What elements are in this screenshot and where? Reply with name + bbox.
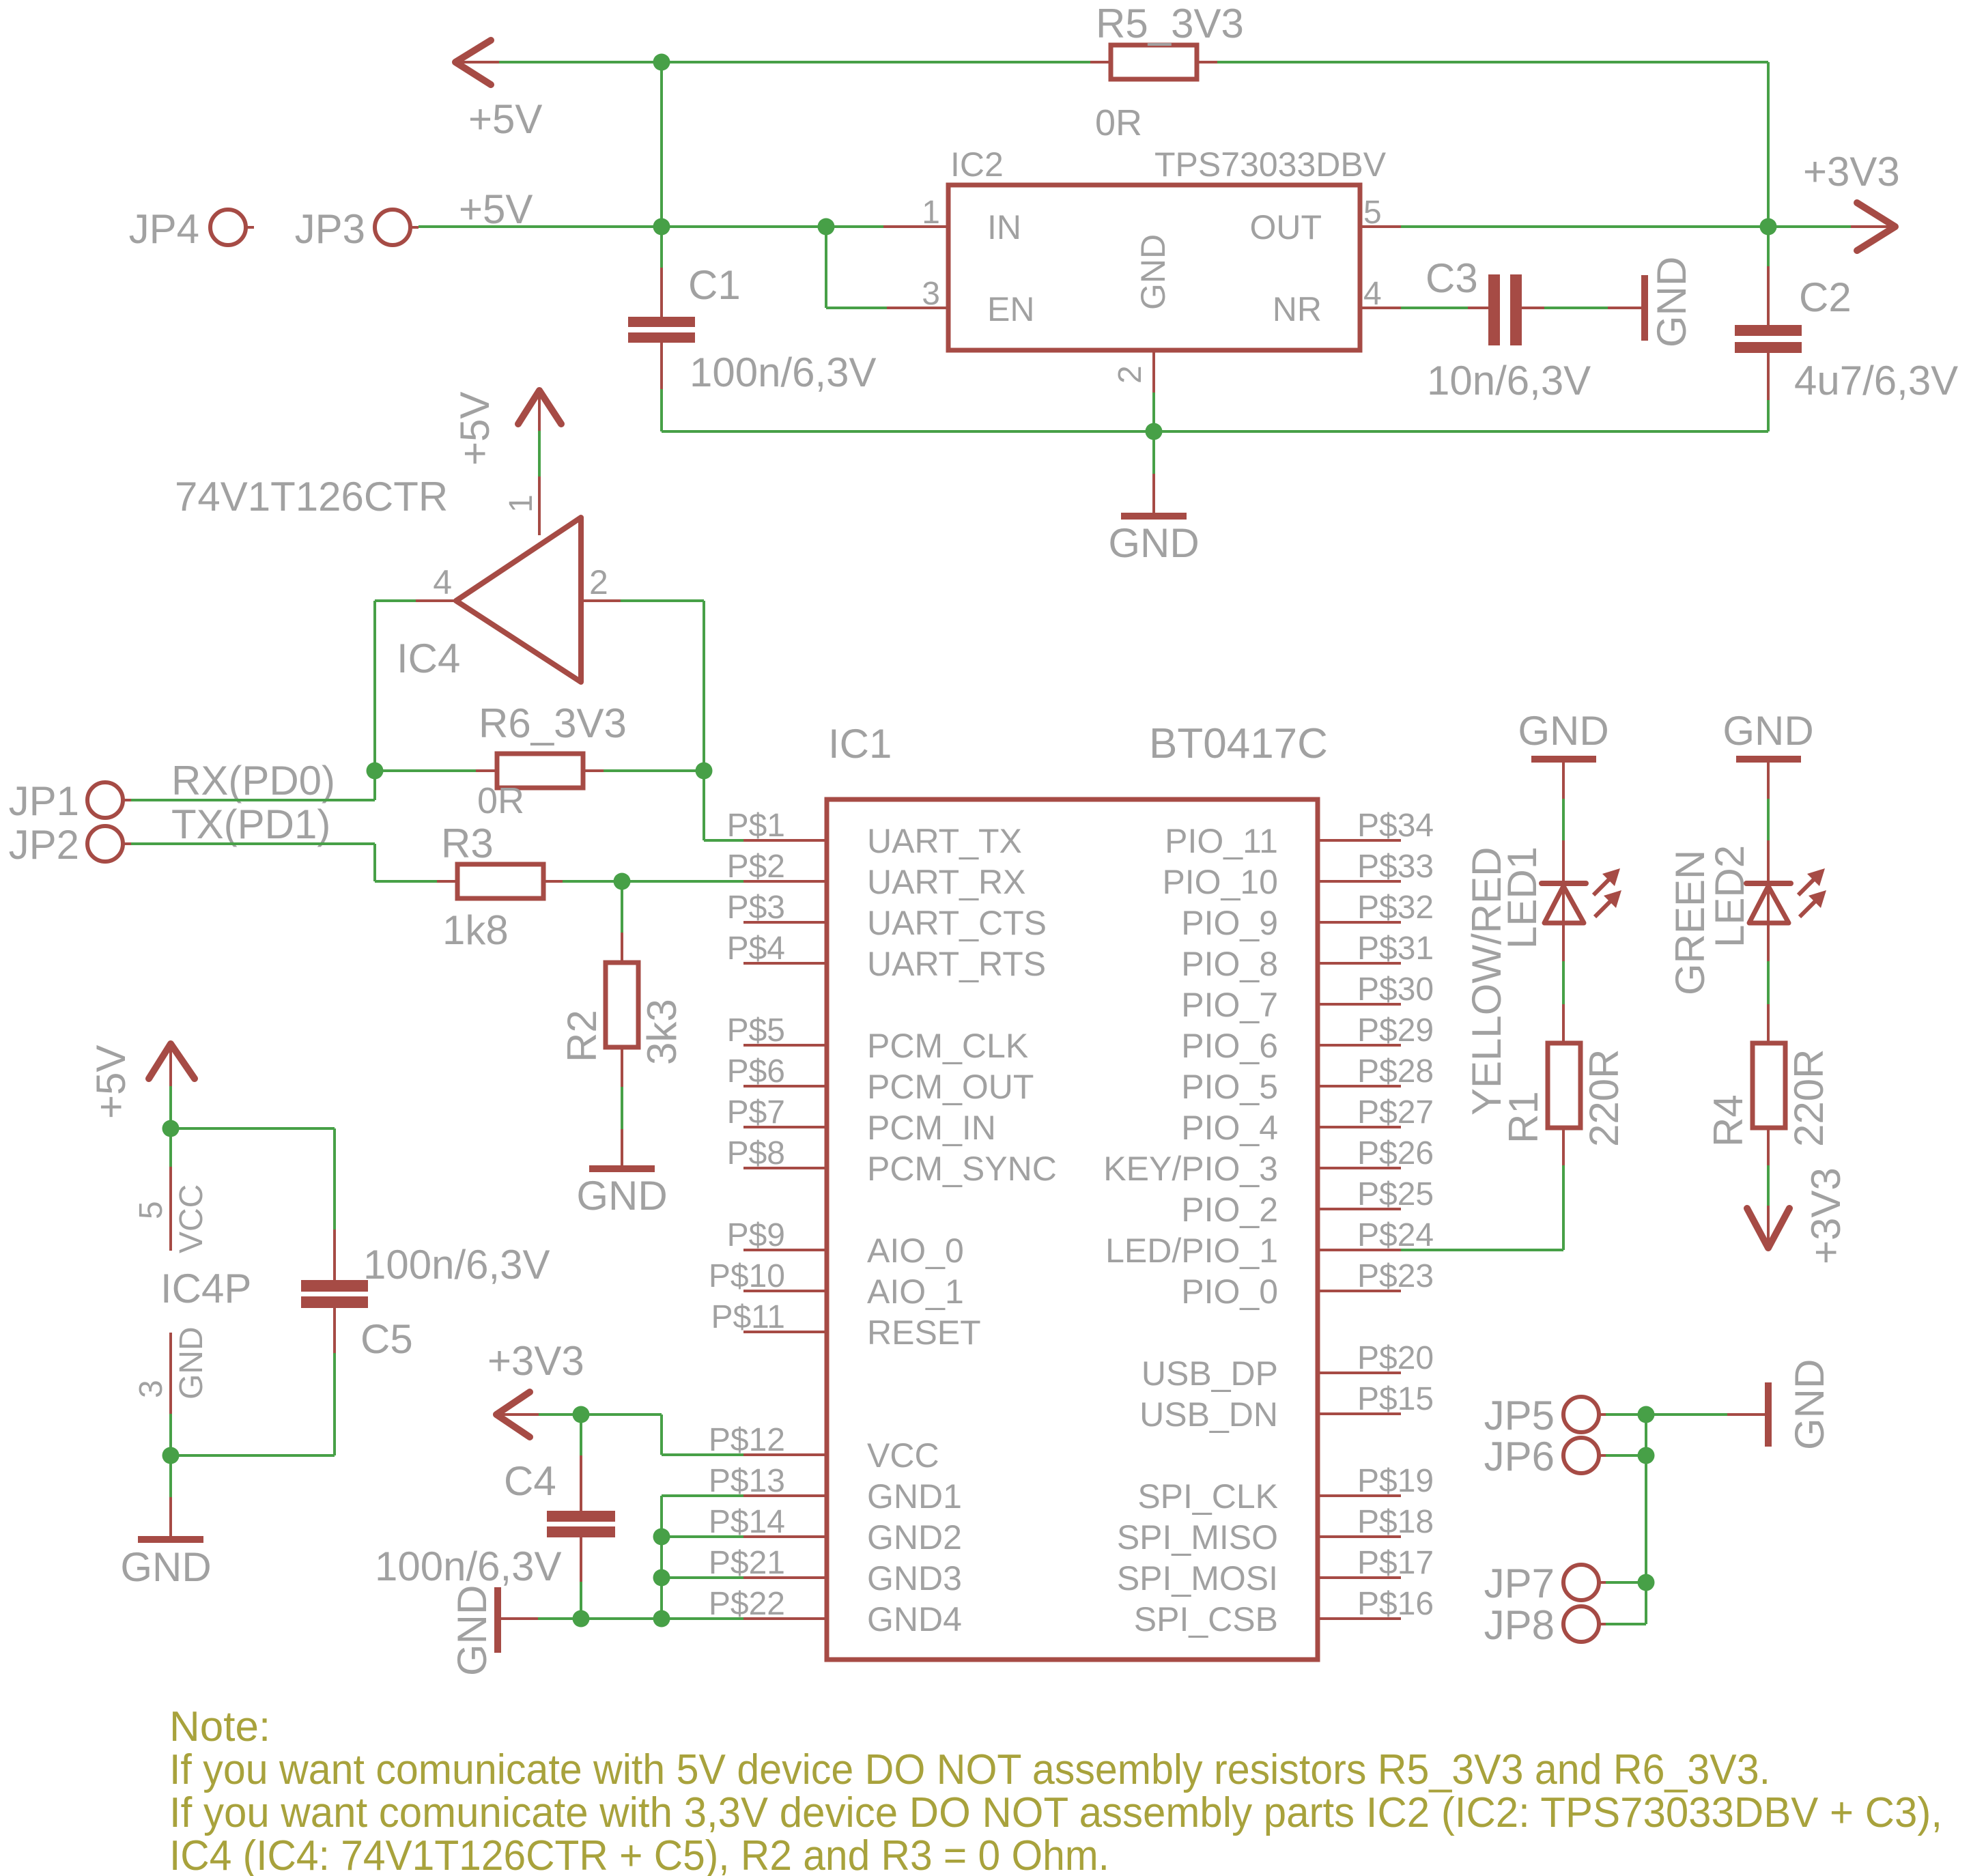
IC4P pin number 3 (rotated) — [133, 1380, 169, 1398]
label LED1 (rotated) — [1499, 847, 1545, 949]
svg-text:2: 2 — [589, 563, 608, 601]
IC1 pin P$25 (PIO_2) stub — [1318, 1208, 1401, 1210]
value 3k3 (R2, rotated) — [639, 999, 685, 1065]
svg-text:220R: 220R — [1786, 1049, 1832, 1147]
junction +5V row / C1 — [653, 218, 670, 236]
LED LED2 — [1746, 883, 1791, 923]
capacitor C4 bottom lead — [580, 1537, 582, 1619]
junction GND rail / riser — [653, 1610, 670, 1628]
IC1 pin name PIO_4 — [1181, 1109, 1278, 1147]
IC1 pin label P$21 — [709, 1545, 785, 1581]
junction +3V3 / C4 — [573, 1406, 590, 1423]
IC1 pin P$30 (PIO_7) stub — [1318, 1003, 1401, 1006]
svg-text:IC1: IC1 — [828, 721, 892, 767]
ground symbol (R2) — [589, 1165, 655, 1172]
label JP6 — [1484, 1434, 1555, 1479]
IC2 pin 4 NR stub — [1360, 307, 1401, 309]
IC4P pin 5 VCC — [169, 1128, 172, 1251]
IC1 pin P$4 (UART_RTS) stub — [743, 962, 827, 965]
svg-text:1k8: 1k8 — [442, 907, 509, 953]
power arrow +3V3 (pointing left, near C4) — [496, 1392, 539, 1437]
jumper JP4 — [210, 210, 254, 245]
svg-text:4: 4 — [433, 563, 452, 601]
IC1 pin P$14 (GND2) stub — [743, 1535, 827, 1538]
svg-text:100n/6,3V: 100n/6,3V — [375, 1544, 562, 1589]
net label +3V3 (below R4, rotated) — [1803, 1167, 1849, 1264]
jumper JP7 — [1563, 1565, 1606, 1600]
voltage regulator IC2 TPS73033DBV — [948, 185, 1360, 350]
junction IC4P GND / C5 — [162, 1447, 180, 1464]
svg-text:P$21: P$21 — [709, 1545, 785, 1581]
label JP1 — [9, 778, 79, 824]
junction JP6 — [1638, 1447, 1655, 1464]
label C4 — [504, 1458, 556, 1504]
power arrow +3V3 (top right, pointing right) — [1851, 203, 1895, 251]
label C3 — [1426, 255, 1478, 301]
svg-text:P$6: P$6 — [727, 1053, 785, 1090]
LED1 emission arrows — [1593, 868, 1621, 917]
IC1 pin label P$19 — [1357, 1463, 1434, 1499]
IC1 pin name USB_DN — [1139, 1395, 1278, 1434]
resistor R1 — [1548, 1043, 1580, 1128]
svg-text:P$32: P$32 — [1357, 890, 1434, 926]
svg-text:VCC: VCC — [173, 1184, 210, 1253]
IC2 pin name NR — [1273, 290, 1322, 328]
resistor R3 leads — [437, 880, 563, 883]
IC1 pin name GND4 — [867, 1600, 962, 1638]
IC1 pin label P$24 — [1357, 1217, 1434, 1253]
IC2 pin number 3 — [922, 276, 940, 312]
svg-text:UART_RX: UART_RX — [867, 863, 1025, 901]
IC2 pin name GND (rotated) — [1134, 234, 1172, 310]
value 100n/6,3V (C4) — [375, 1544, 562, 1589]
ground symbol (IC4P) — [138, 1536, 203, 1543]
IC1 pin label P$20 — [1357, 1340, 1434, 1376]
LED2 emission arrows — [1798, 868, 1826, 917]
IC1 pin name PIO_5 — [1181, 1068, 1278, 1106]
label IC4P — [160, 1266, 251, 1311]
svg-text:OUT: OUT — [1249, 208, 1322, 246]
wire riser to P$21 — [662, 1576, 743, 1579]
IC2 pin number 4 — [1363, 276, 1382, 312]
IC1 pin label P$12 — [709, 1422, 785, 1458]
wire R1 to P$24 (LED/PIO_1) — [1401, 1249, 1563, 1251]
junction riser / P$14 — [653, 1529, 670, 1546]
svg-text:PIO_6: PIO_6 — [1181, 1027, 1278, 1065]
svg-text:GND: GND — [1722, 708, 1813, 754]
label JP8 — [1484, 1602, 1555, 1648]
net label +5V (top) — [468, 96, 542, 142]
capacitor C4 — [547, 1511, 615, 1537]
capacitor C5 bottom lead — [333, 1308, 336, 1455]
IC1 pin P$10 (AIO_1) stub — [743, 1290, 827, 1292]
wire vertical from top rail to +5V row — [660, 62, 663, 227]
LED LED1 — [1542, 883, 1586, 923]
IC1 pin label P$27 — [1357, 1094, 1434, 1131]
svg-text:P$34: P$34 — [1357, 808, 1434, 844]
svg-text:100n/6,3V: 100n/6,3V — [690, 350, 877, 395]
label R1 (rotated) — [1501, 1091, 1546, 1143]
svg-text:GND4: GND4 — [867, 1600, 962, 1638]
svg-text:R3: R3 — [441, 821, 494, 866]
note line 3 — [169, 1832, 1109, 1876]
IC1 pin name GND2 — [867, 1518, 962, 1557]
svg-text:GREEN: GREEN — [1667, 850, 1713, 995]
ground symbol (C3) — [1641, 275, 1648, 341]
IC1 pin label P$29 — [1357, 1012, 1434, 1049]
IC4 pin 2 lead — [581, 599, 704, 602]
IC1 pin label P$32 — [1357, 890, 1434, 926]
IC1 pin name PIO_2 — [1181, 1191, 1278, 1229]
IC1 pin label P$18 — [1357, 1504, 1434, 1540]
label LED2 (rotated) — [1707, 845, 1753, 948]
IC4P pin number 5 (rotated) — [133, 1201, 169, 1219]
wire NR to C3 — [1401, 307, 1488, 309]
IC1 pin name UART_RX — [867, 863, 1025, 901]
IC2 pin number 5 — [1363, 195, 1382, 231]
IC1 pin name LED/PIO_1 — [1105, 1232, 1278, 1270]
svg-text:JP1: JP1 — [9, 778, 79, 824]
svg-text:GND3: GND3 — [867, 1559, 962, 1597]
label JP3 — [295, 206, 365, 252]
IC1 pin name AIO_1 — [867, 1273, 964, 1311]
svg-text:NR: NR — [1273, 290, 1322, 328]
IC2 pin name OUT — [1249, 208, 1322, 246]
svg-text:GND: GND — [1649, 257, 1695, 347]
svg-text:SPI_CSB: SPI_CSB — [1134, 1600, 1278, 1638]
svg-text:1: 1 — [922, 195, 940, 231]
IC1 pin P$5 (PCM_CLK) stub — [743, 1044, 827, 1047]
wire bottom GND rail — [662, 430, 1768, 433]
svg-text:GND: GND — [1787, 1359, 1832, 1450]
svg-text:TX(PD1): TX(PD1) — [171, 801, 330, 847]
svg-text:AIO_0: AIO_0 — [867, 1232, 964, 1270]
value 10n/6,3V (C3) — [1427, 358, 1591, 403]
IC1 pin P$3 (UART_CTS) stub — [743, 921, 827, 924]
IC1 pin P$13 (GND1) stub — [743, 1494, 827, 1497]
IC1 pin name KEY/PIO_3 — [1103, 1150, 1278, 1188]
svg-text:If you want comunicate with 3,: If you want comunicate with 3,3V device … — [169, 1789, 1942, 1836]
svg-text:C3: C3 — [1426, 255, 1478, 301]
svg-text:+5V: +5V — [468, 96, 542, 142]
IC1 pin P$17 (SPI_MOSI) stub — [1318, 1576, 1401, 1579]
svg-text:4u7/6,3V: 4u7/6,3V — [1794, 358, 1958, 403]
svg-text:GND: GND — [1518, 708, 1608, 754]
IC1 pin label P$7 — [727, 1094, 785, 1131]
IC1 pin name USB_DP — [1142, 1354, 1278, 1393]
value 100n/6,3V (C5) — [363, 1242, 550, 1288]
svg-text:P$24: P$24 — [1357, 1217, 1434, 1253]
resistor R6_3V3 leads — [375, 769, 704, 772]
svg-text:USB_DP: USB_DP — [1142, 1354, 1278, 1393]
IC1 pin name PIO_10 — [1162, 863, 1278, 901]
IC1 pin P$2 (UART_RX) stub — [743, 880, 827, 883]
svg-text:C5: C5 — [360, 1316, 413, 1362]
value 0R (R5) — [1095, 102, 1142, 143]
ground label GND (IC4P) — [120, 1544, 211, 1590]
wire junction to C5 bottom — [171, 1454, 335, 1457]
IC4P pin 3 GND — [169, 1333, 172, 1455]
LED1 cathode lead — [1562, 763, 1565, 923]
net label +5V (IC4P, rotated) — [88, 1045, 134, 1119]
wire EN branch — [826, 227, 887, 308]
IC1 pin label P$33 — [1357, 849, 1434, 885]
wire GND riser — [660, 1496, 663, 1619]
svg-text:GND: GND — [173, 1326, 210, 1399]
IC2 pin 5 OUT stub — [1360, 225, 1401, 228]
label C2 — [1799, 274, 1852, 320]
svg-text:74V1T126CTR: 74V1T126CTR — [175, 474, 448, 520]
IC1 pin P$28 (PIO_5) stub — [1318, 1085, 1401, 1088]
resistor R1 bottom lead — [1562, 1128, 1565, 1250]
IC1 pin name PCM_CLK — [867, 1027, 1028, 1065]
svg-text:SPI_CLK: SPI_CLK — [1137, 1477, 1278, 1516]
svg-text:10n/6,3V: 10n/6,3V — [1427, 358, 1591, 403]
capacitor C3 — [1488, 274, 1522, 345]
svg-text:JP6: JP6 — [1484, 1434, 1555, 1479]
label JP4 — [129, 206, 199, 252]
IC1 pin P$33 (PIO_10) stub — [1318, 880, 1401, 883]
wire IC4 pin2 down to P$1 — [704, 601, 743, 840]
svg-text:P$7: P$7 — [727, 1094, 785, 1131]
net label +3V3 (top right) — [1803, 149, 1900, 195]
net label RX(PD0) — [171, 758, 335, 804]
IC1 pin name SPI_CSB — [1134, 1600, 1278, 1638]
svg-text:P$4: P$4 — [727, 930, 785, 967]
label 74V1T126CTR — [175, 474, 448, 520]
svg-text:R5_3V3: R5_3V3 — [1096, 1, 1244, 46]
svg-text:2: 2 — [1112, 365, 1148, 384]
power arrow +5V (top left, pointing left) — [455, 40, 499, 85]
IC1 pin name VCC — [867, 1436, 939, 1475]
IC1 pin label P$30 — [1357, 971, 1434, 1008]
IC1 pin P$26 (KEY/PIO_3) stub — [1318, 1167, 1401, 1169]
svg-text:UART_RTS: UART_RTS — [867, 945, 1046, 983]
IC1 pin name PCM_SYNC — [867, 1150, 1057, 1188]
ground label GND (LED2) — [1722, 708, 1813, 754]
ground symbol (IC2) — [1121, 513, 1187, 520]
IC1 pin P$23 (PIO_0) stub — [1318, 1290, 1401, 1292]
IC2 pin 3 EN stub — [887, 307, 948, 309]
IC4P pin name GND (rotated) — [173, 1326, 210, 1399]
svg-text:+5V: +5V — [459, 186, 533, 232]
wire JP8 — [1606, 1623, 1646, 1625]
IC1 pin P$19 (SPI_CLK) stub — [1318, 1494, 1401, 1497]
svg-text:+3V3: +3V3 — [1803, 149, 1900, 195]
svg-text:0R: 0R — [477, 780, 524, 821]
svg-text:PIO_4: PIO_4 — [1181, 1109, 1278, 1147]
IC2 pin number 2 (rotated) — [1112, 365, 1148, 384]
svg-text:P$16: P$16 — [1357, 1586, 1434, 1622]
svg-text:P$20: P$20 — [1357, 1340, 1434, 1376]
jumper JP1 — [87, 782, 131, 818]
label C5 — [360, 1316, 413, 1362]
wire OUT to +3V3 arrow — [1401, 225, 1851, 228]
svg-text:3k3: 3k3 — [639, 999, 685, 1065]
svg-text:P$19: P$19 — [1357, 1463, 1434, 1499]
IC1 pin name UART_RTS — [867, 945, 1046, 983]
wire +5V row (JP3 to IC2 IN) — [419, 225, 883, 228]
svg-text:P$11: P$11 — [711, 1299, 785, 1335]
junction +3V3 node — [1760, 218, 1777, 236]
svg-text:PIO_9: PIO_9 — [1181, 904, 1278, 942]
IC1 pin name PIO_6 — [1181, 1027, 1278, 1065]
ground label GND (R2) — [576, 1173, 667, 1219]
wire JP6 — [1606, 1454, 1646, 1457]
bluetooth module IC1 BT0417C — [827, 799, 1318, 1660]
svg-text:P$2: P$2 — [727, 849, 785, 885]
label JP2 — [9, 822, 79, 868]
IC1 pin P$21 (GND3) stub — [743, 1576, 827, 1579]
IC1 pin P$18 (SPI_MISO) stub — [1318, 1535, 1401, 1538]
svg-text:RESET: RESET — [867, 1313, 981, 1352]
IC2 pin 1 IN stub — [883, 225, 948, 228]
wire riser to P$13 — [662, 1494, 743, 1497]
IC1 pin name AIO_0 — [867, 1232, 964, 1270]
IC1 pin label P$28 — [1357, 1053, 1434, 1090]
svg-text:EN: EN — [987, 290, 1034, 328]
svg-text:P$26: P$26 — [1357, 1135, 1434, 1171]
LED2 anode lead — [1767, 923, 1770, 1043]
IC1 pin label P$8 — [727, 1135, 785, 1171]
wire IC4 pin4 down to RX — [373, 601, 376, 800]
jumper JP5 — [1563, 1397, 1606, 1432]
value 220R (R1, rotated) — [1581, 1049, 1627, 1147]
svg-text:GND: GND — [576, 1173, 667, 1219]
wire +3V3 vertical (right of R5 down to OUT node) — [1767, 62, 1770, 227]
svg-text:JP5: JP5 — [1484, 1393, 1555, 1438]
resistor R5_3V3 — [1111, 45, 1197, 79]
IC1 pin P$6 (PCM_OUT) stub — [743, 1085, 827, 1088]
IC1 pin name UART_TX — [867, 822, 1022, 860]
IC4 pin number 4 — [433, 563, 452, 601]
ground label GND (C3, rotated) — [1649, 257, 1695, 347]
IC1 pin P$9 (AIO_0) stub — [743, 1249, 827, 1251]
svg-text:LED2: LED2 — [1707, 845, 1753, 948]
IC1 pin P$31 (PIO_8) stub — [1318, 962, 1401, 965]
IC1 pin name SPI_MOSI — [1117, 1559, 1278, 1597]
svg-text:P$25: P$25 — [1357, 1176, 1434, 1212]
svg-text:PIO_10: PIO_10 — [1162, 863, 1278, 901]
svg-text:P$15: P$15 — [1357, 1381, 1434, 1417]
IC1 pin label P$16 — [1357, 1586, 1434, 1622]
IC1 pin label P$5 — [727, 1012, 785, 1049]
resistor R3 — [457, 864, 543, 898]
IC1 pin label P$2 — [727, 849, 785, 885]
net label +5V (IC4, rotated) — [452, 392, 498, 466]
IC1 pin P$20 (USB_DP) stub — [1318, 1372, 1401, 1374]
wire GND rail to IC1 grounds — [500, 1617, 743, 1620]
IC1 pin label P$3 — [727, 890, 785, 926]
resistor R4 — [1753, 1043, 1785, 1128]
IC1 pin label P$25 — [1357, 1176, 1434, 1212]
ground symbol (LED2) — [1736, 756, 1801, 763]
svg-text:IN: IN — [987, 208, 1021, 246]
IC1 pin P$8 (PCM_SYNC) stub — [743, 1167, 827, 1169]
svg-text:P$22: P$22 — [709, 1586, 785, 1622]
IC2 pin 2 GND stub — [1152, 350, 1155, 393]
IC1 pin name PIO_11 — [1165, 822, 1278, 860]
label YELLOW/RED (rotated) — [1464, 847, 1509, 1115]
svg-text:IC4: IC4 — [397, 636, 460, 681]
svg-text:RX(PD0): RX(PD0) — [171, 758, 335, 804]
ground symbol (C4, vertical bar) — [494, 1587, 501, 1653]
value 4u7/6,3V (C2) — [1794, 358, 1958, 403]
svg-text:Note:: Note: — [169, 1703, 270, 1750]
IC1 pin name PIO_0 — [1181, 1273, 1278, 1311]
svg-text:3: 3 — [133, 1380, 169, 1398]
label R4 (rotated) — [1705, 1094, 1751, 1147]
IC1 pin name PCM_IN — [867, 1109, 996, 1147]
IC1 pin P$11 (RESET) stub — [743, 1331, 827, 1333]
capacitor C1 bottom lead — [660, 343, 663, 431]
capacitor C5 top lead — [333, 1128, 336, 1280]
svg-text:VCC: VCC — [867, 1436, 939, 1475]
junction top rail / C1 branch — [653, 54, 670, 71]
label JP7 — [1484, 1561, 1555, 1606]
svg-text:GND: GND — [1108, 520, 1199, 566]
IC1 pin label P$9 — [727, 1217, 785, 1253]
svg-text:PIO_2: PIO_2 — [1181, 1191, 1278, 1229]
junction +5V row / EN branch — [818, 218, 835, 236]
svg-text:GND: GND — [120, 1544, 211, 1590]
IC1 pin P$12 (VCC) stub — [743, 1453, 827, 1456]
svg-text:P$12: P$12 — [709, 1422, 785, 1458]
svg-text:PCM_CLK: PCM_CLK — [867, 1027, 1028, 1065]
IC1 pin name SPI_MISO — [1117, 1518, 1278, 1557]
svg-text:GND1: GND1 — [867, 1477, 962, 1516]
svg-text:SPI_MOSI: SPI_MOSI — [1117, 1559, 1278, 1597]
junction C4 / GND rail — [573, 1610, 590, 1628]
svg-text:SPI_MISO: SPI_MISO — [1117, 1518, 1278, 1557]
label IC4 — [397, 636, 460, 681]
svg-text:If you want comunicate with 5V: If you want comunicate with 5V device DO… — [169, 1746, 1770, 1793]
svg-text:UART_TX: UART_TX — [867, 822, 1022, 860]
capacitor C1 top lead — [660, 227, 663, 317]
svg-text:P$28: P$28 — [1357, 1053, 1434, 1090]
IC1 pin label P$4 — [727, 930, 785, 967]
IC1 pin name PIO_9 — [1181, 904, 1278, 942]
jumper JP3 — [375, 210, 419, 245]
note line 2 — [169, 1789, 1942, 1836]
label C1 — [688, 262, 741, 308]
svg-text:JP3: JP3 — [295, 206, 365, 252]
wire JP5 to GND — [1606, 1413, 1766, 1416]
svg-text:+5V: +5V — [88, 1045, 134, 1119]
wire +3V3 to P$12 (VCC) — [581, 1415, 743, 1455]
ground symbol (JP5-8, vertical bar) — [1765, 1382, 1772, 1447]
capacitor C2 top lead — [1767, 227, 1770, 325]
svg-text:R2: R2 — [559, 1010, 605, 1062]
IC1 pin label P$11 — [711, 1299, 785, 1335]
svg-text:P$10: P$10 — [709, 1258, 785, 1294]
svg-text:PCM_IN: PCM_IN — [867, 1109, 996, 1147]
value 0R (R6) — [477, 780, 524, 821]
svg-text:GND: GND — [1134, 234, 1172, 310]
IC4 pin 4 lead — [375, 599, 456, 602]
svg-text:P$17: P$17 — [1357, 1545, 1434, 1581]
wire GND rail to ground symbol — [1152, 474, 1155, 513]
junction R3 / R2 — [614, 873, 631, 890]
ground label GND (IC2) — [1108, 520, 1199, 566]
wire JP bus vertical — [1645, 1415, 1647, 1624]
capacitor C5 — [301, 1280, 368, 1308]
svg-text:P$13: P$13 — [709, 1463, 785, 1499]
net label +3V3 (near C4) — [487, 1338, 584, 1384]
label GREEN (rotated) — [1667, 850, 1713, 995]
jumper JP2 — [87, 826, 131, 862]
label IC2 — [950, 145, 1004, 184]
